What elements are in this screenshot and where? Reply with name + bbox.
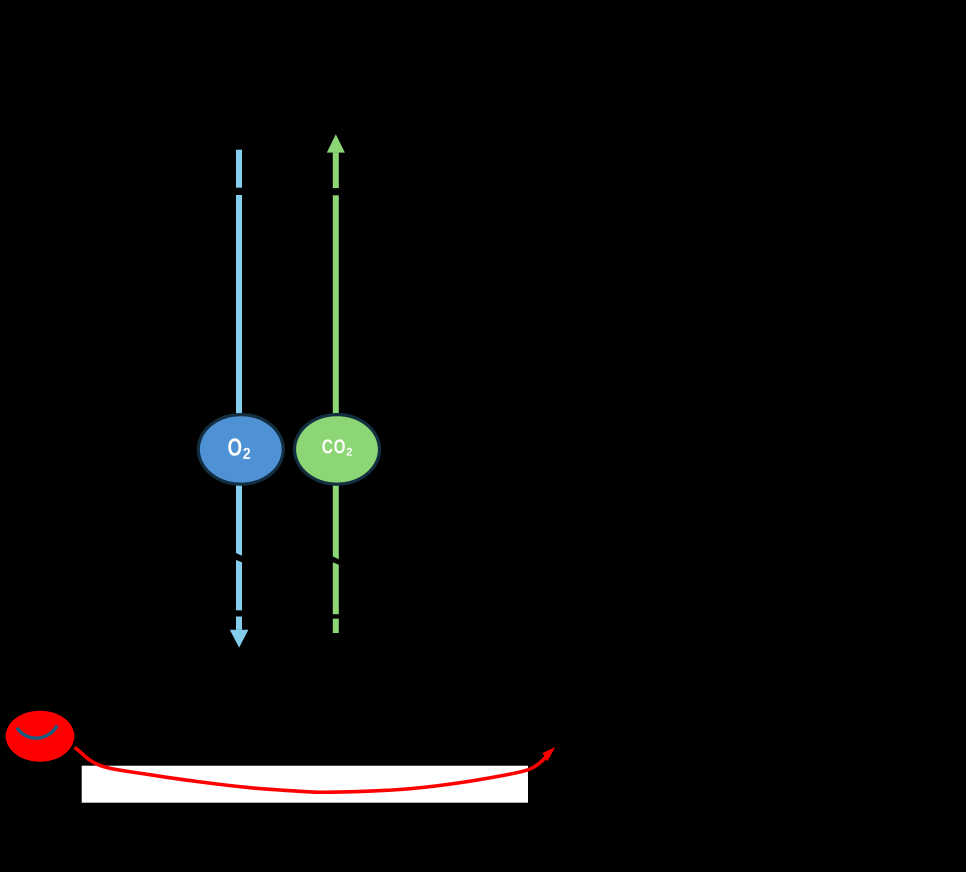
CO2 ellipse bbox=[295, 415, 380, 485]
red flow arrow curve bbox=[75, 747, 547, 792]
white label box bbox=[82, 766, 528, 803]
wire O2 arrow lower segment 1 bbox=[236, 484, 242, 556]
wire CO2 arrow upper segment 1 bbox=[333, 153, 339, 189]
wire CO2 arrow lower segment 1 bbox=[333, 484, 339, 559]
red blood cell body bbox=[6, 711, 75, 762]
wire CO2 arrow upper segment 2 bbox=[333, 195, 339, 415]
red flow arrowhead bbox=[543, 747, 556, 761]
red blood cell dimple bbox=[17, 726, 57, 739]
wire O2 arrow lower segment 2 bbox=[236, 560, 242, 611]
CO2 label O bbox=[334, 439, 344, 453]
wire CO2 arrow lower segment 2 bbox=[333, 562, 339, 614]
O2 label subscript 2 bbox=[243, 448, 250, 459]
O2 arrowhead down bbox=[230, 630, 249, 648]
CO2 arrowhead up bbox=[327, 134, 345, 152]
wire O2 arrow upper segment 2 bbox=[236, 195, 242, 415]
wire O2 arrow lower segment 3 bbox=[236, 617, 242, 630]
CO2 label C bbox=[322, 439, 332, 453]
O2 label O bbox=[228, 438, 241, 455]
wire O2 arrow upper segment 1 bbox=[236, 150, 242, 188]
wire CO2 arrow lower segment 3 bbox=[333, 619, 339, 633]
O2 ellipse bbox=[198, 415, 283, 485]
CO2 label subscript 2 bbox=[347, 448, 352, 456]
